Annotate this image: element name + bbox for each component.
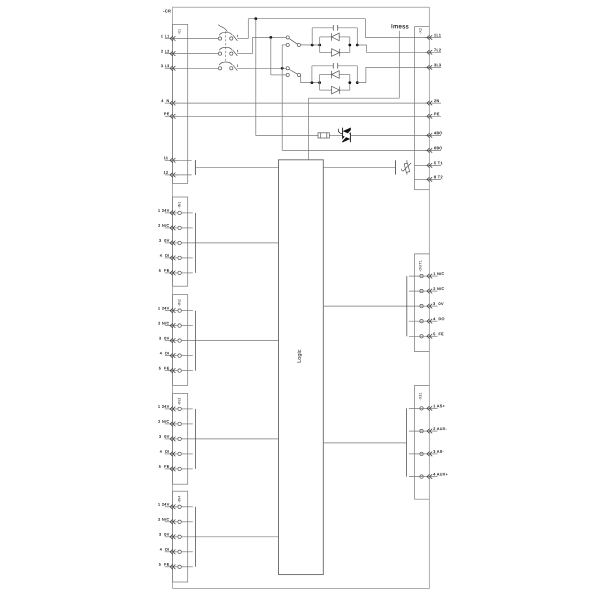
svg-text:3 0V: 3 0V	[159, 533, 170, 537]
label -IN4	[178, 496, 182, 503]
svg-text:4BO: 4BO	[434, 131, 443, 135]
fuse F1	[318, 133, 329, 138]
node bridge1 left outer	[311, 44, 314, 47]
wire L3 to X2-6BO	[282, 149, 429, 151]
svg-text:-IN3: -IN3	[178, 398, 182, 405]
svg-text:4 DI: 4 DI	[160, 254, 170, 258]
wire bridge1 output	[357, 45, 429, 52]
terminal OUT1-1	[409, 272, 445, 279]
wire N	[173, 102, 430, 104]
svg-text:5 T1: 5 T1	[434, 161, 443, 165]
wire L1 to X2-1L1	[365, 37, 429, 39]
wire Imess stub	[398, 31, 400, 98]
diode D1	[331, 33, 339, 41]
svg-text:1L1: 1L1	[434, 33, 441, 37]
svg-text:-IN4: -IN4	[178, 496, 182, 503]
wire Logic to sensor interface	[323, 166, 395, 168]
svg-text:-X31: -X31	[419, 392, 423, 400]
svg-text:12: 12	[163, 171, 168, 175]
label Imess	[391, 24, 409, 30]
terminal IN2-5	[159, 366, 193, 373]
svg-text:5 FE: 5 FE	[159, 465, 170, 469]
terminal X31-4	[409, 473, 448, 480]
svg-text:5 FE: 5 FE	[159, 269, 170, 273]
terminal IN4-3	[159, 533, 279, 540]
svg-text:2 N/C: 2 N/C	[158, 518, 169, 522]
thermistor RT1	[401, 160, 411, 174]
wire X2-5T1	[414, 164, 425, 166]
terminal X1-PE	[164, 112, 178, 119]
svg-text:2 L2: 2 L2	[161, 49, 170, 53]
node bridge2 left inner	[318, 81, 321, 84]
logic block U1	[279, 160, 324, 575]
wire L2 to selector	[253, 36, 287, 38]
wire L1 riser	[247, 19, 249, 39]
label Logic	[297, 349, 303, 363]
wire S1 to bridge 1	[301, 44, 320, 46]
node bridge2 left outer	[311, 81, 314, 84]
terminal X1-3 L3	[161, 64, 178, 71]
svg-text:1 24V: 1 24V	[158, 405, 170, 409]
isolation bracket IN2	[194, 311, 196, 371]
node B (L3)	[281, 67, 284, 70]
svg-text:1 N/C: 1 N/C	[433, 272, 444, 276]
terminal IN3-4	[160, 450, 193, 457]
suppressor diode D5	[338, 128, 352, 143]
wire bridge2 diode loop	[320, 75, 350, 91]
terminal OUT1-5	[409, 332, 444, 339]
terminal X31-1	[409, 404, 445, 411]
svg-text:4 DO: 4 DO	[433, 317, 445, 321]
connector block -X1 box	[173, 24, 188, 183]
svg-text:3L3: 3L3	[434, 63, 441, 67]
terminal X2-1L1	[425, 33, 441, 39]
diode D2	[332, 49, 340, 57]
isolation bracket X31	[406, 408, 408, 476]
svg-text:2 N/C: 2 N/C	[158, 420, 169, 424]
terminal IN3-1	[158, 405, 193, 412]
terminal IN3-2	[158, 420, 193, 427]
wire L2 drop	[270, 37, 272, 75]
changeover contact S1	[286, 36, 300, 47]
terminal X2-6BO	[425, 146, 443, 153]
svg-text:-IN1: -IN1	[178, 201, 182, 208]
terminal IN4-1	[158, 503, 193, 510]
isolation bracket IN3	[194, 409, 196, 469]
svg-text:4 AUX+: 4 AUX+	[433, 473, 448, 477]
svg-text:5 FE: 5 FE	[433, 332, 444, 336]
diode D4	[332, 86, 340, 94]
wire terminal 12	[173, 174, 192, 176]
terminal X2-4BO	[425, 131, 443, 138]
node bridge2 right outer	[356, 81, 359, 84]
wire Imess horizontal	[309, 97, 400, 99]
wire L3 riser/drop	[281, 45, 283, 150]
svg-text:4 DI: 4 DI	[160, 548, 170, 552]
terminal X2-3L3	[425, 63, 441, 69]
terminal X31-3	[409, 450, 445, 457]
terminal IN1-5	[159, 269, 193, 276]
svg-text:8 T2: 8 T2	[434, 175, 443, 179]
wire PE	[173, 115, 430, 117]
isolation bar right	[395, 160, 397, 174]
label -OUT1	[419, 260, 423, 271]
svg-text:1 AS+: 1 AS+	[433, 404, 445, 408]
terminal X2-2N	[425, 99, 441, 106]
wire terminal 11	[173, 159, 192, 161]
node bridge1 right inner	[348, 44, 351, 47]
node bridge1 left inner	[318, 44, 321, 47]
svg-text:3 0V: 3 0V	[433, 302, 444, 306]
terminal IN1-4	[160, 254, 193, 261]
svg-text:1 24V: 1 24V	[158, 306, 170, 310]
input block -IN1 box	[173, 197, 188, 286]
svg-text:-CR: -CR	[163, 8, 171, 13]
terminal X1-12	[163, 171, 177, 178]
wire bridge1 diode loop	[320, 37, 350, 53]
changeover contact S2	[286, 67, 300, 77]
terminal IN4-4	[160, 548, 193, 555]
label -IN1	[178, 201, 182, 208]
terminal OUT1-3	[323, 302, 444, 309]
contact CR-3 (L3)	[178, 62, 238, 71]
wire L3 blade to selector	[237, 67, 286, 69]
svg-text:1 24V: 1 24V	[158, 209, 170, 213]
svg-text:1 L1: 1 L1	[161, 34, 170, 38]
svg-text:2 N/C: 2 N/C	[158, 224, 169, 228]
capacitor C2	[333, 63, 337, 69]
node A (L2)	[269, 36, 272, 39]
terminal X1-4 N	[161, 99, 177, 106]
svg-text:7L2: 7L2	[434, 48, 441, 52]
svg-text:2 AUX-: 2 AUX-	[433, 427, 447, 431]
svg-text:4 N: 4 N	[161, 99, 169, 103]
module outline frame	[173, 7, 430, 588]
wire bridge1 lower branch	[320, 52, 350, 54]
svg-text:3 0V: 3 0V	[159, 336, 170, 340]
terminal IN2-2	[158, 321, 193, 328]
svg-text:3 0V: 3 0V	[159, 435, 170, 439]
terminal IN1-1	[158, 209, 193, 216]
terminal OUT1-2	[409, 287, 445, 294]
svg-text:-IN2: -IN2	[178, 299, 182, 306]
contact CR-2 (L2)	[178, 47, 238, 56]
svg-text:3 L3: 3 L3	[161, 64, 170, 68]
wire L1 to brake output	[256, 19, 318, 136]
connector block -X2 box	[414, 27, 429, 190]
wire bridge1 snubber branch	[312, 28, 357, 45]
label -IN3	[178, 398, 182, 405]
terminal IN1-2	[158, 224, 193, 231]
output block -OUT1 box	[414, 254, 429, 352]
label -X31	[419, 392, 423, 400]
svg-text:6BO: 6BO	[434, 146, 443, 150]
isolation bar left	[194, 160, 196, 175]
svg-text:2 N/C: 2 N/C	[158, 321, 169, 325]
terminal IN2-4	[160, 351, 193, 358]
svg-text:-OUT1: -OUT1	[419, 260, 423, 271]
input block -IN3 box	[173, 393, 188, 484]
svg-text:5 FE: 5 FE	[159, 366, 170, 370]
wire L1 drop to X2	[364, 19, 366, 38]
svg-text:-X1: -X1	[178, 29, 182, 35]
wire bridge2 snubber branch	[312, 66, 357, 83]
label -X2	[418, 28, 422, 34]
label -X1	[178, 29, 182, 35]
terminal X2-8T2	[425, 175, 443, 182]
svg-text:3 0V: 3 0V	[159, 239, 170, 243]
wire fuse to suppressor	[329, 134, 342, 136]
terminal X2-7L2	[425, 48, 441, 54]
wire S2 to bridge 2	[301, 75, 320, 83]
node bridge2 right inner	[348, 81, 351, 84]
svg-text:4 DI: 4 DI	[160, 450, 170, 454]
terminal IN3-3	[159, 435, 279, 442]
svg-text:PE: PE	[164, 112, 170, 116]
wire L2 riser	[252, 37, 254, 53]
svg-text:PE: PE	[434, 112, 440, 116]
terminal X1-2 L2	[161, 49, 178, 56]
svg-text:-X2: -X2	[418, 28, 422, 34]
svg-text:4 DI: 4 DI	[160, 351, 170, 355]
svg-text:1 24V: 1 24V	[158, 503, 170, 507]
node L1 top bus junction	[254, 17, 257, 20]
wire X2-8T2	[414, 178, 425, 180]
terminal IN2-1	[158, 306, 193, 313]
isolation bracket OUT1	[406, 276, 408, 336]
svg-text:3 AS-: 3 AS-	[433, 450, 444, 454]
wire bridge2 output	[357, 67, 429, 82]
wire L2 blade to riser	[237, 53, 252, 55]
relay designation -CR	[163, 8, 171, 13]
terminal X31-2	[409, 427, 448, 434]
input block -IN4 box	[173, 491, 188, 582]
terminal IN4-2	[158, 518, 193, 525]
terminal IN2-3	[159, 336, 279, 343]
wire L3 to selector 1 lower	[282, 44, 286, 46]
terminal X1-11	[164, 156, 178, 163]
isolation bracket IN4	[194, 507, 196, 567]
wire suppressor to X2-4BO	[350, 134, 429, 136]
svg-text:5 FE: 5 FE	[159, 563, 170, 567]
isolation bracket IN1	[194, 213, 196, 273]
node bridge1 right outer	[356, 44, 359, 47]
diode D3	[331, 71, 339, 79]
capacitor C1	[333, 25, 337, 31]
wire L1 top bus	[248, 18, 365, 20]
terminal IN4-5	[159, 563, 193, 570]
terminal OUT1-4	[409, 317, 445, 324]
contact CR-1 (L1)	[178, 25, 238, 41]
label -IN2	[178, 299, 182, 306]
wire Imess riser from Logic	[308, 98, 310, 160]
svg-text:Imess: Imess	[391, 24, 409, 30]
terminal IN1-3	[159, 239, 279, 246]
wire Logic to X31 bracket	[323, 442, 406, 444]
mechanical linkage (dashed)	[225, 31, 227, 61]
terminal X2-PE	[425, 112, 441, 119]
terminal X1-1 L1	[161, 34, 178, 41]
connector block -X31 box	[414, 385, 429, 499]
wire L2 to selector 2 lower	[271, 74, 286, 76]
svg-text:2N: 2N	[434, 99, 440, 103]
wire L1 blade to riser	[237, 38, 248, 40]
terminal X2-5T1	[425, 161, 443, 168]
input block -IN2 box	[173, 295, 188, 386]
terminal IN3-5	[159, 465, 193, 472]
svg-text:2 N/C: 2 N/C	[433, 287, 444, 291]
wire coil interface to Logic	[195, 166, 278, 168]
svg-text:11: 11	[164, 156, 169, 160]
svg-text:Logic: Logic	[297, 349, 303, 363]
wire bridge2 lower branch	[320, 89, 350, 91]
